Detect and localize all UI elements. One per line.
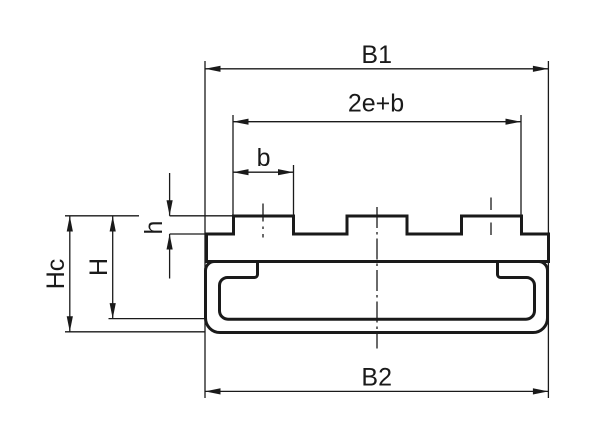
dimension b line [233,171,294,173]
profile top plate with 3 teeth [207,216,549,262]
center line tooth 1 [262,204,264,238]
dimension B1 line [205,68,548,70]
extension line 2e+b right [520,115,522,215]
svg-text:2e+b: 2e+b [348,90,404,118]
profile C-channel (bent strip) [206,262,548,333]
extension line h top [170,215,232,217]
extension line b right [293,165,295,215]
svg-text:B2: B2 [361,364,392,392]
svg-text:B1: B1 [361,41,392,69]
extension line Hc bottom (outer bottom) [65,331,205,333]
dimension B2 line [205,390,548,392]
extension line H bottom (inner floor) [109,318,206,320]
svg-text:b: b [257,144,271,172]
center line main (part axis / tooth 2 center) [376,207,378,349]
extension line top (Hc/H) [65,215,139,217]
extension line h bottom (shoulder) [170,233,205,235]
extension line 2e+b left [232,115,234,215]
extension line left (B1/B2) [204,61,206,398]
svg-text:Hc: Hc [42,259,70,290]
dimension H line [112,216,114,319]
svg-text:h: h [140,221,168,235]
dimension h lower arrow (outside, pointing up) [169,234,171,279]
dimension Hc line [69,216,71,332]
dimension h upper arrow (outside, pointing down) [169,173,171,216]
svg-text:H: H [85,258,113,276]
extension line right (B1/B2) [547,61,549,398]
dimension 2e+b line [233,121,521,123]
center line tooth 3 [490,198,492,237]
